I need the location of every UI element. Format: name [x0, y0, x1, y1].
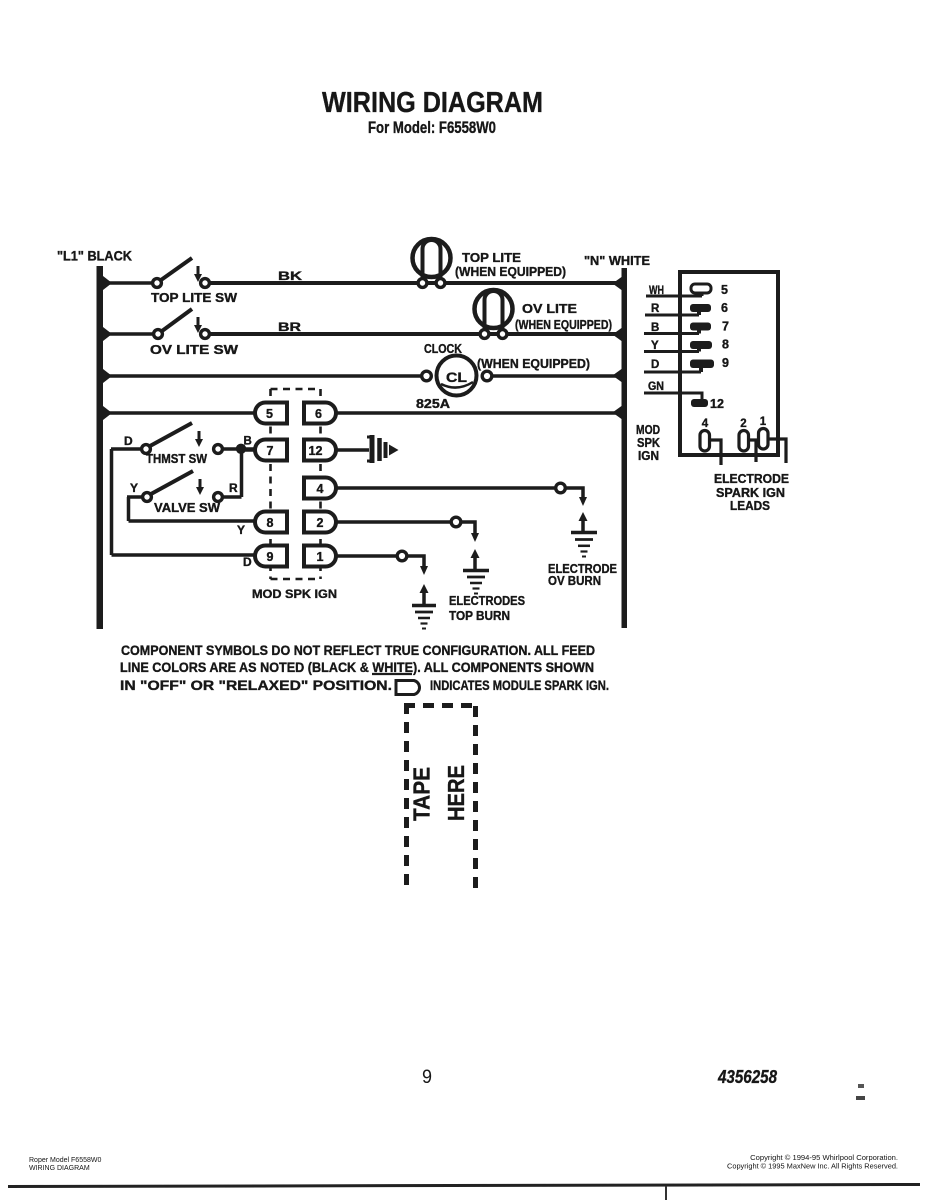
svg-text:4: 4 — [317, 482, 324, 496]
svg-text:SPARK IGN: SPARK IGN — [716, 486, 785, 500]
svg-text:TOP LITE: TOP LITE — [462, 251, 521, 265]
svg-text:R: R — [229, 481, 238, 495]
svg-text:6: 6 — [721, 301, 728, 315]
svg-text:B: B — [651, 322, 659, 334]
svg-text:9: 9 — [267, 550, 274, 564]
svg-text:INDICATES MODULE SPARK IGN.: INDICATES MODULE SPARK IGN. — [430, 678, 609, 693]
svg-text:GN: GN — [648, 381, 664, 393]
svg-text:WH: WH — [649, 285, 664, 297]
svg-text:Y: Y — [130, 481, 138, 495]
svg-text:B: B — [244, 436, 252, 448]
svg-text:(WHEN EQUIPPED): (WHEN EQUIPPED) — [455, 265, 566, 279]
svg-text:TOP LITE SW: TOP LITE SW — [151, 291, 237, 305]
svg-text:(WHEN EQUIPPED): (WHEN EQUIPPED) — [515, 318, 612, 332]
svg-text:Y: Y — [237, 523, 245, 537]
svg-text:12: 12 — [309, 444, 323, 458]
svg-text:Y: Y — [651, 340, 659, 352]
svg-text:12: 12 — [710, 397, 724, 411]
svg-text:TAPE: TAPE — [409, 767, 435, 821]
svg-text:7: 7 — [267, 444, 274, 458]
svg-text:R: R — [651, 303, 660, 315]
svg-text:IN "OFF" OR "RELAXED" POSITION: IN "OFF" OR "RELAXED" POSITION. — [120, 678, 392, 693]
svg-text:2: 2 — [317, 516, 324, 530]
svg-text:BK: BK — [278, 269, 302, 283]
svg-text:HERE: HERE — [443, 765, 469, 821]
svg-text:D: D — [651, 359, 659, 371]
svg-text:OV LITE SW: OV LITE SW — [150, 343, 238, 357]
svg-text:THMST SW: THMST SW — [146, 452, 207, 466]
svg-text:6: 6 — [315, 407, 322, 421]
svg-text:OV LITE: OV LITE — [522, 302, 577, 316]
svg-text:7: 7 — [722, 320, 729, 334]
svg-text:CLOCK: CLOCK — [424, 342, 462, 356]
svg-text:9: 9 — [422, 1067, 432, 1088]
svg-text:IGN: IGN — [638, 449, 659, 463]
svg-text:5: 5 — [266, 407, 273, 421]
svg-text:D: D — [243, 555, 252, 569]
svg-text:D: D — [124, 434, 133, 448]
svg-text:COMPONENT SYMBOLS DO NOT REFLE: COMPONENT SYMBOLS DO NOT REFLECT TRUE CO… — [121, 643, 595, 658]
svg-text:825A: 825A — [416, 397, 450, 411]
svg-text:ELECTRODES: ELECTRODES — [449, 594, 525, 608]
svg-text:BR: BR — [278, 320, 301, 334]
svg-text:WIRING DIAGRAM: WIRING DIAGRAM — [322, 87, 543, 119]
svg-text:8: 8 — [722, 338, 729, 352]
svg-text:(WHEN EQUIPPED): (WHEN EQUIPPED) — [477, 357, 590, 371]
svg-text:LEADS: LEADS — [730, 499, 770, 513]
svg-text:ELECTRODE: ELECTRODE — [714, 472, 789, 486]
svg-text:"L1" BLACK: "L1" BLACK — [57, 249, 132, 264]
svg-text:"N" WHITE: "N" WHITE — [584, 254, 650, 268]
svg-text:SPK: SPK — [637, 436, 660, 450]
svg-text:For Model: F6558W0: For Model: F6558W0 — [368, 118, 496, 137]
svg-text:5: 5 — [721, 283, 728, 297]
svg-text:2: 2 — [740, 418, 746, 430]
svg-text:MOD SPK IGN: MOD SPK IGN — [252, 587, 337, 601]
svg-text:OV BURN: OV BURN — [548, 574, 601, 588]
svg-text:Roper Model F6558W0: Roper Model F6558W0 — [29, 1157, 101, 1164]
svg-text:9: 9 — [722, 356, 729, 370]
svg-text:VALVE SW: VALVE SW — [154, 501, 220, 515]
svg-text:8: 8 — [267, 516, 274, 530]
svg-text:Copyright © 1995 MaxNew Inc.: Copyright © 1995 MaxNew Inc. All Rights … — [727, 1162, 898, 1171]
svg-text:WIRING DIAGRAM: WIRING DIAGRAM — [29, 1165, 90, 1172]
svg-text:LINE COLORS ARE AS NOTED (BLAC: LINE COLORS ARE AS NOTED (BLACK & WHITE)… — [120, 660, 594, 675]
svg-text:1: 1 — [760, 416, 767, 428]
svg-text:MOD: MOD — [636, 423, 660, 437]
svg-text:CL: CL — [446, 369, 467, 385]
svg-text:4: 4 — [702, 418, 709, 430]
svg-text:TOP BURN: TOP BURN — [449, 609, 510, 623]
svg-text:4356258: 4356258 — [717, 1067, 777, 1087]
svg-text:1: 1 — [317, 550, 324, 564]
